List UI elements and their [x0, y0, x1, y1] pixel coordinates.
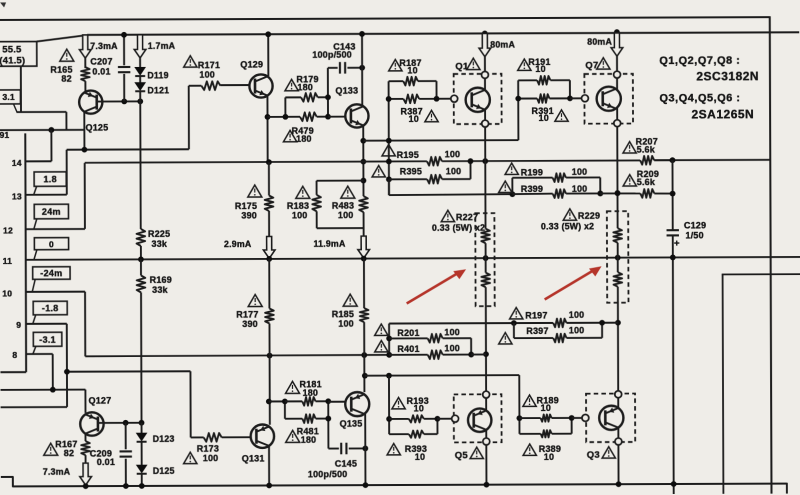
resistor R199 100	[512, 177, 552, 179]
wire R185 to Q135	[363, 322, 365, 392]
resistor R225 33k	[137, 229, 146, 246]
node junction Q5 col line354	[483, 351, 489, 357]
resistor R191 10	[518, 79, 537, 81]
current arrow 11.9mA	[358, 236, 370, 258]
wire R173 riser	[189, 371, 191, 437]
resistor R391 10	[518, 97, 537, 99]
svg-text:Q3: Q3	[587, 450, 600, 461]
wire R177 column upper	[268, 259, 270, 309]
svg-text:5.6k: 5.6k	[637, 177, 656, 187]
resistor R187 10	[389, 80, 404, 82]
svg-text:R395: R395	[400, 166, 422, 176]
svg-text:10: 10	[2, 288, 12, 298]
node junction D125 rail	[139, 483, 145, 489]
wire Q133 emitter column down	[362, 125, 364, 196]
svg-text:100: 100	[338, 210, 354, 220]
node junction pin14 riser	[48, 127, 54, 133]
annotation red arrow left	[407, 273, 458, 303]
wire line355 stub to Q5 col	[471, 353, 486, 355]
transistor Q131	[251, 424, 274, 447]
wire R175 column	[268, 162, 270, 195]
resistor R393 10	[389, 433, 409, 435]
node junction pin9 line371	[64, 369, 70, 375]
voltage label box 24m	[34, 204, 68, 219]
node junction stub line161	[386, 159, 392, 165]
svg-text:7.3mA: 7.3mA	[43, 467, 71, 477]
node junction Q125 collector line148	[82, 147, 88, 153]
svg-text:Q5: Q5	[455, 450, 469, 461]
voltage label box -24m	[33, 267, 70, 280]
resistor R165	[81, 67, 90, 81]
wire R199 left stub	[511, 178, 513, 194]
wire D125 to rail	[141, 474, 143, 486]
wire R179 right stub with C143 drop	[327, 68, 329, 117]
resistor R481 180	[285, 418, 302, 420]
node junction C143 Q133 collector	[359, 65, 365, 71]
node junction R175 top	[266, 159, 272, 165]
svg-text:100p/500: 100p/500	[308, 469, 348, 479]
wire main line y161	[85, 161, 427, 162]
resistor R201 100	[389, 337, 427, 339]
resistor R401 100 on line355	[389, 354, 427, 356]
node junction Q135 col line375	[362, 373, 368, 379]
svg-text:390: 390	[242, 319, 258, 329]
svg-text:10: 10	[415, 452, 425, 462]
current arrow 2.9mA	[263, 236, 275, 258]
diode D119	[135, 67, 145, 75]
resistor R193 10	[389, 418, 409, 420]
svg-text:R225: R225	[148, 229, 170, 239]
svg-text:2SA1265N: 2SA1265N	[691, 107, 754, 121]
node junction C129 bottom rail	[671, 481, 677, 487]
resistor R227a	[484, 127, 486, 229]
node junction Q133 col line161	[360, 159, 366, 165]
wire Q3 to bottom rail	[617, 445, 619, 484]
svg-text:82: 82	[64, 448, 74, 458]
svg-text:2SC3182N: 2SC3182N	[696, 69, 759, 83]
wire R201 right stub	[470, 338, 472, 354]
node junction Q135 col line355	[361, 352, 367, 358]
svg-text:+: +	[674, 238, 680, 249]
svg-text:55.5: 55.5	[2, 44, 22, 55]
wire R177 to line355	[268, 323, 270, 355]
wire R199 right stub	[599, 177, 601, 193]
pin circle Q3 base	[582, 415, 589, 422]
wire C129 column upper	[671, 160, 673, 230]
resistor R229a	[616, 127, 618, 229]
svg-text:100: 100	[446, 166, 462, 176]
wire R165 to Q125	[84, 81, 86, 91]
svg-text:0.01: 0.01	[97, 457, 115, 467]
wire D121 to base line	[139, 91, 141, 101]
svg-text:D119: D119	[147, 70, 168, 80]
svg-text:0.33 (5W) x2: 0.33 (5W) x2	[432, 223, 485, 233]
node junction Q131 collector R181	[266, 399, 272, 405]
node junction R397 left on line323	[511, 320, 517, 326]
svg-text:Q135: Q135	[340, 419, 363, 429]
resistor R399 100	[512, 193, 552, 196]
svg-text:R229: R229	[578, 211, 600, 221]
wire line y129 to Q125 collector	[0, 129, 84, 131]
node output center line	[26, 257, 800, 260]
wire R191 stub riser	[517, 80, 519, 140]
diode D121	[135, 83, 145, 91]
node junction C209 rail	[123, 483, 129, 489]
node junction stub line140	[386, 138, 392, 144]
wire left edge y110 line	[16, 111, 66, 113]
capacitor C209	[120, 450, 132, 452]
wire R185 column upper	[363, 259, 365, 309]
node junction R225 center	[138, 256, 144, 262]
svg-text:Q3,Q4,Q5,Q6 :: Q3,Q4,Q5,Q6 :	[659, 92, 740, 104]
wire Q135 emitter to rail	[364, 414, 366, 485]
wire Q131 emitter to rail	[268, 446, 270, 485]
wire Q125 collector down	[83, 112, 85, 150]
node junction R399 left	[509, 191, 515, 197]
wire Q7 base lead	[570, 97, 581, 99]
current arrow 1.7mA top	[134, 35, 146, 58]
wire R397 left stub	[513, 323, 515, 338]
wire driver line y140	[363, 139, 518, 142]
svg-text:2.9mA: 2.9mA	[224, 239, 252, 249]
svg-text:80mA: 80mA	[490, 40, 515, 50]
svg-text:R195: R195	[397, 150, 419, 160]
svg-text:10: 10	[414, 403, 424, 413]
node junction R401 right	[468, 352, 474, 358]
svg-text:13: 13	[12, 191, 22, 201]
resistor R227b	[485, 243, 487, 272]
svg-text:390: 390	[241, 211, 257, 221]
voltage label box -1.8	[33, 301, 67, 315]
node junction C207 rail	[121, 32, 127, 38]
svg-text:11.9mA: 11.9mA	[313, 239, 345, 249]
svg-text:0.01: 0.01	[92, 67, 110, 77]
wire R187 right stub	[435, 81, 437, 99]
node junction R391 left	[515, 96, 521, 102]
wire R201 left stub	[388, 324, 390, 355]
svg-text:0: 0	[49, 239, 54, 249]
wire Q3 base lead	[572, 417, 583, 419]
IC block bottom edge	[0, 371, 26, 373]
node junction C209 base line	[123, 420, 129, 426]
resistor R167 82	[81, 441, 90, 455]
node junction 7.3mA rail	[83, 483, 89, 489]
svg-text:100: 100	[572, 167, 588, 177]
wire C143 right lead	[347, 67, 362, 69]
resistor R209 5.6k	[640, 189, 654, 198]
node junction C129 top	[670, 157, 676, 163]
svg-text:1/50: 1/50	[685, 230, 703, 240]
pin circle Q7 base	[582, 95, 589, 102]
wire Q127 base line east	[98, 422, 142, 424]
wire C145 right lead	[349, 447, 366, 449]
wire Q5 base lead	[437, 418, 451, 420]
resistor R173 100	[204, 433, 222, 442]
svg-text:180: 180	[301, 435, 317, 445]
node junction R187 right	[434, 96, 440, 102]
node junction Q5 rail	[484, 482, 490, 488]
svg-text:100p/500: 100p/500	[312, 50, 352, 60]
wire top border line	[0, 17, 770, 20]
node junction Q133 rail	[359, 31, 365, 37]
node junction Q7 col line194	[615, 190, 621, 196]
node junction R397 right on line323	[599, 320, 605, 326]
transistor box Q3 dashed	[586, 394, 635, 443]
pin circle Q5 base	[452, 415, 459, 422]
capacitor C143 100p/500	[339, 62, 341, 74]
wire pin10 riser down	[84, 292, 86, 357]
voltage label box 3.1 at left edge	[0, 90, 20, 104]
annotation red arrow right	[545, 270, 594, 299]
wire R227 to Q5	[485, 287, 487, 391]
capacitor C145 100p/500	[340, 443, 342, 455]
wire line y406 west	[1, 406, 67, 408]
resistor R207 5.6k	[640, 156, 654, 165]
svg-text:-1.8: -1.8	[42, 303, 59, 313]
node junction C145 Q135 emitter	[362, 446, 368, 452]
svg-text:R169: R169	[150, 275, 172, 285]
svg-text:100: 100	[203, 453, 219, 463]
wire R225 column	[139, 101, 141, 229]
svg-text:R401: R401	[397, 344, 419, 354]
wire Q129 collector to rail	[267, 34, 269, 76]
node junction Q133 col R183 bar	[361, 178, 367, 184]
svg-text:Q1: Q1	[455, 61, 469, 72]
transistor box Q1 dashed	[454, 74, 502, 124]
svg-text:Q125: Q125	[86, 123, 109, 133]
node junction C129 center line	[670, 254, 676, 260]
resistor R387 10	[389, 98, 404, 100]
node junction D123 base line	[139, 420, 145, 426]
node junction R189 left stub	[517, 415, 523, 421]
pin circle Q5 top	[483, 391, 490, 398]
node junction Q3 rail	[616, 481, 622, 487]
wire line y371 from pin9 node east	[67, 370, 190, 372]
wire pin12 riser	[84, 163, 86, 229]
svg-text:-3.1: -3.1	[39, 335, 56, 345]
svg-text:82: 82	[61, 74, 71, 84]
voltage label box 0	[34, 238, 68, 250]
svg-text:5.6k: 5.6k	[637, 145, 656, 155]
node junction R401 left on line355	[386, 352, 392, 358]
svg-text:8: 8	[12, 350, 17, 360]
svg-text:10: 10	[538, 113, 548, 123]
wire Q135 base lead	[328, 401, 345, 403]
svg-text:1.7mA: 1.7mA	[148, 41, 176, 51]
wire between D119 D121	[139, 76, 141, 82]
wire R225 to center line	[140, 246, 142, 259]
wire R171 riser	[188, 86, 190, 149]
svg-text:10: 10	[409, 114, 419, 124]
current arrow 7.3mA bottom	[80, 463, 92, 485]
svg-text:100: 100	[569, 325, 585, 335]
resistor R195 100 on main line	[427, 157, 442, 166]
svg-text:24m: 24m	[42, 207, 61, 217]
resistor R479 180	[285, 116, 300, 118]
svg-text:7.3mA: 7.3mA	[90, 41, 118, 51]
wire main line y355	[85, 355, 389, 357]
resistor R175 390	[265, 195, 274, 211]
node junction R193 left	[386, 416, 392, 422]
svg-text:91: 91	[0, 130, 10, 140]
wire R181 line from Q131 collector	[269, 400, 285, 402]
node junction R189 right	[569, 415, 575, 421]
node junction C129 R209	[670, 191, 676, 197]
wire R169 column top	[140, 259, 142, 275]
transistor Q127	[80, 412, 103, 435]
svg-text:C145: C145	[335, 459, 357, 469]
wire C209 column	[125, 423, 127, 449]
node junction Q129 emitter R479 line	[265, 114, 271, 120]
node junction center 11.9	[361, 256, 367, 262]
wire R187 left stub	[388, 81, 390, 195]
svg-text:R201: R201	[397, 328, 419, 338]
wire Q1 base lead	[437, 98, 451, 100]
wire R175 to arrow 2.9mA	[268, 211, 270, 259]
wire line194 to C129 col	[600, 192, 640, 194]
capacitor C129 1/50 polarized	[667, 229, 679, 231]
node junction R479 left	[283, 114, 289, 120]
wire R179 R479 left stub	[268, 116, 286, 118]
transistor Q1	[466, 88, 490, 112]
wire positive supply rail	[87, 32, 799, 35]
capacitor C207	[118, 66, 130, 68]
wire R171 to Q129 base	[220, 84, 249, 86]
wire Q129 emitter down	[266, 94, 268, 162]
svg-text:Q131: Q131	[242, 453, 265, 463]
node junction Q135 rail	[363, 482, 369, 488]
svg-text:33k: 33k	[151, 239, 167, 249]
svg-text:180: 180	[297, 82, 313, 92]
svg-text:1.8: 1.8	[43, 174, 56, 184]
svg-text:C207: C207	[90, 57, 112, 67]
wire Q133 collector to rail	[361, 34, 363, 106]
svg-text:10: 10	[407, 65, 417, 75]
node junction R229 center	[615, 255, 621, 261]
resistor block R227 0.33 5W x2 dashed box	[475, 213, 494, 306]
node junction center 2.9	[266, 256, 272, 262]
svg-text:33k: 33k	[152, 285, 168, 295]
wire pin13 riser	[66, 150, 68, 195]
svg-text:R197: R197	[525, 310, 547, 320]
svg-text:R397: R397	[526, 326, 548, 336]
wire R189 right stub	[571, 418, 573, 434]
node junction Q7 rail	[614, 29, 620, 35]
wire driver line y375	[365, 374, 519, 377]
resistor R389 10	[519, 433, 540, 435]
wire R189 stub riser down	[518, 375, 520, 434]
svg-text:10: 10	[544, 452, 554, 462]
svg-text:Q129: Q129	[240, 60, 263, 70]
wire R229 to Q3	[617, 287, 619, 391]
svg-text:Q127: Q127	[89, 396, 112, 406]
node junction Q133 emitter line140	[360, 138, 366, 144]
node junction stub R395	[386, 176, 392, 182]
svg-text:100: 100	[572, 184, 588, 194]
wire pin14 riser	[50, 130, 52, 161]
svg-text:-24m: -24m	[40, 268, 62, 278]
svg-text:C129: C129	[684, 220, 706, 230]
wire pin9 riser down	[66, 324, 68, 407]
scan corner mark	[0, 2, 6, 7]
resistor block R229 0.33 5W x2 dashed box	[607, 211, 629, 303]
transistor Q129	[249, 74, 272, 97]
node junction D121 base line	[137, 98, 143, 104]
node junction R177 line355	[267, 353, 273, 359]
svg-text:R399: R399	[521, 184, 543, 194]
current arrow 80mA left	[479, 33, 491, 56]
svg-text:180: 180	[303, 388, 319, 398]
wire D119 D121 column	[139, 35, 141, 67]
wire Q1 collector to rail	[484, 33, 486, 71]
node junction R481 right	[325, 416, 331, 422]
wire R193 left stub	[388, 376, 390, 435]
resistor R183 100	[312, 195, 321, 211]
wire between D123 D125	[141, 442, 143, 465]
wire line161 to border	[654, 159, 770, 161]
transistor Q5	[468, 408, 491, 431]
svg-text:100: 100	[444, 343, 460, 353]
wire tick from 3.1 box	[13, 104, 17, 112]
wire R167 to arrow	[85, 455, 87, 463]
wire R171 line	[189, 85, 202, 87]
svg-text:100: 100	[338, 319, 354, 329]
svg-text:180: 180	[296, 134, 312, 144]
node junction Q131 rail	[266, 483, 272, 489]
wire R395 right stub	[469, 161, 471, 179]
wire speaker-line vertical x722	[722, 274, 725, 493]
svg-text:D125: D125	[153, 466, 175, 476]
wire line y148 to R171 corner	[67, 148, 189, 150]
svg-text:R199: R199	[521, 167, 543, 177]
wire sloped rail end into 55.5 box	[37, 35, 89, 42]
node junction Q3 col line323	[615, 320, 621, 326]
wire Q7 collector to rail	[616, 33, 618, 71]
resistor R171 100	[201, 81, 220, 90]
transistor box Q7 dashed	[584, 74, 633, 124]
wire C129 column lower	[672, 235, 675, 494]
wire R193 right stub	[436, 419, 438, 434]
node junction Q129 rail	[265, 31, 271, 37]
svg-text:12: 12	[3, 225, 13, 235]
wire Q131 collector column	[269, 356, 271, 425]
svg-text:R227: R227	[456, 212, 478, 222]
wire R183 R483 bottom bar	[317, 227, 364, 229]
wire R183 left leg top	[316, 181, 318, 195]
svg-text:D121: D121	[147, 85, 169, 95]
wire Q5 collector to bottom rail	[485, 445, 487, 485]
resistor R229b	[617, 243, 619, 272]
svg-text:100: 100	[569, 310, 585, 320]
wire C207 column	[123, 35, 125, 65]
pin circle Q1 emitter bottom	[482, 120, 489, 127]
wire R165 column	[84, 35, 86, 68]
transistor Q135	[345, 392, 369, 416]
voltage label box 1.8	[34, 172, 66, 187]
svg-text:D123: D123	[153, 434, 175, 444]
wire R183 left leg bottom	[316, 211, 318, 228]
IC block right edge	[24, 133, 27, 372]
pin circle Q5 bottom	[483, 438, 490, 445]
resistor R177 390	[265, 308, 274, 323]
svg-text:10: 10	[541, 403, 551, 413]
transistor Q3	[599, 406, 623, 430]
svg-text:11: 11	[3, 256, 12, 266]
voltage label box 55.5 (41.5)	[0, 42, 37, 67]
current arrow 7.3mA top	[79, 35, 91, 58]
node junction R193 stub line375	[386, 373, 392, 379]
svg-text:(41.5): (41.5)	[0, 55, 25, 66]
